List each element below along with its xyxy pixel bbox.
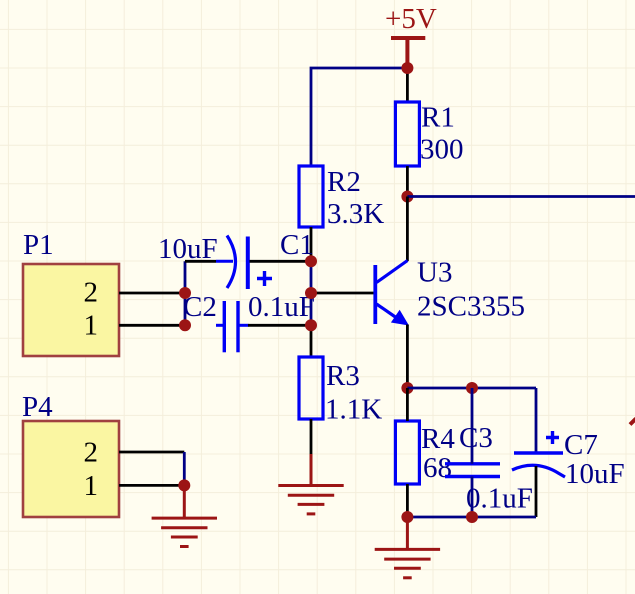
node +5V junction (401, 62, 413, 74)
node emitter junction (401, 382, 413, 394)
connector P4 (23, 421, 119, 517)
wire C7 bottom (535, 466, 538, 517)
resistor R3 (299, 357, 323, 419)
wire emitter down to R4 node (406, 325, 409, 389)
svg-text:C3: C3 (459, 422, 493, 454)
wire C3 bottom (471, 477, 474, 518)
power +5V symbol (391, 38, 425, 68)
node P4 ground junction (178, 479, 190, 491)
resistor R2 (299, 166, 323, 227)
ground below emitter network (375, 517, 440, 578)
wire +5V junction to R2 top (311, 68, 407, 166)
svg-text:R2: R2 (327, 166, 361, 198)
capacitor C2 (0.1uF) (216, 301, 249, 352)
wire P4 pin1 (119, 484, 184, 487)
resistor R1 (395, 102, 419, 166)
svg-text:2: 2 (84, 277, 99, 309)
wire C1 right plate to base column (250, 260, 312, 263)
svg-text:0.1uF: 0.1uF (248, 291, 315, 323)
svg-text:2SC3355: 2SC3355 (417, 291, 525, 323)
wire collector node down to transistor (406, 197, 409, 262)
svg-text:P1: P1 (23, 229, 54, 261)
node C3 bottom junction (466, 511, 478, 523)
node C2 right junction (305, 319, 317, 331)
wire left node up to C1 (185, 260, 216, 263)
node P1 pin1 junction (179, 319, 191, 331)
wire C2 right plate to base column (248, 324, 311, 327)
capacitor C3 (0.1uF) (445, 464, 500, 477)
svg-text:1: 1 (84, 470, 99, 502)
wire C3 top (471, 388, 474, 464)
wire P4 pin2 drop (183, 452, 186, 485)
svg-text:R4: R4 (421, 423, 455, 455)
svg-text:U3: U3 (417, 257, 452, 289)
svg-text:+5V: +5V (385, 3, 437, 35)
wire P4 pin2 (119, 451, 184, 454)
wire R2 bottom to C1 node (310, 227, 313, 261)
ground below P4 (152, 485, 217, 546)
wire P1 pin1 to left lower node (119, 324, 185, 327)
svg-text:2: 2 (84, 437, 99, 469)
svg-text:P4: P4 (22, 391, 53, 423)
svg-text:R3: R3 (326, 360, 360, 392)
wire red stub at right edge (630, 419, 635, 425)
wire left node vertical (184, 261, 187, 325)
svg-text:1.1K: 1.1K (325, 394, 382, 426)
wire output to right edge (407, 195, 635, 198)
wire emitter node to C7 top (407, 387, 536, 390)
wire C2 node to R3 top (310, 325, 313, 357)
svg-text:0.1uF: 0.1uF (466, 483, 533, 515)
resistor R4 (395, 421, 419, 484)
svg-text:C7: C7 (564, 429, 598, 461)
svg-text:R1: R1 (421, 102, 455, 134)
svg-text:68: 68 (423, 452, 452, 484)
node P1 pin2 junction (179, 287, 191, 299)
node collector output junction (401, 191, 413, 203)
svg-text:10uF: 10uF (158, 233, 218, 265)
node base junction (305, 287, 317, 299)
wire emitter node to R4 top (406, 388, 409, 421)
transistor U3 2SC3355 (375, 261, 407, 325)
wire R4 bottom to bottom node (406, 484, 409, 517)
wire bottom rail (407, 516, 536, 519)
wire P1 pin2 to left node (119, 292, 185, 295)
node bottom rail left junction (401, 511, 413, 523)
wire R3 bottom (310, 419, 313, 454)
node C1 right junction (305, 255, 317, 267)
wire +5V junction down to R1 top (406, 66, 409, 102)
svg-text:3.3K: 3.3K (327, 198, 384, 230)
wire base (311, 292, 374, 295)
svg-text:10uF: 10uF (565, 458, 625, 490)
svg-text:C2: C2 (183, 291, 217, 323)
svg-text:1: 1 (84, 310, 99, 342)
svg-text:300: 300 (420, 134, 464, 166)
wire R1 bottom to collector node (406, 166, 409, 196)
capacitor C1 (10uF polarized) (216, 236, 272, 290)
node C3 top junction (466, 382, 478, 394)
connector P1 (23, 264, 119, 356)
capacitor C7 (10uF polarized) (535, 388, 538, 453)
ground below R3 (278, 454, 343, 514)
wire C1 node to C2 node (base column) (310, 261, 313, 325)
